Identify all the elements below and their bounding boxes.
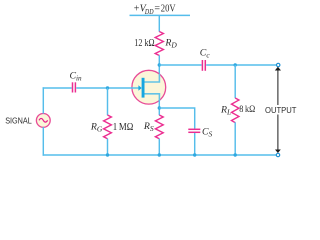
node RG bottom bbox=[106, 153, 109, 156]
node RL bottom bbox=[234, 153, 237, 156]
wire transistor source down bbox=[158, 100, 160, 115]
svg-text:=: = bbox=[154, 4, 160, 15]
resistor RS bbox=[155, 115, 163, 139]
node gate bbox=[106, 86, 109, 89]
svg-text:1 MΩ: 1 MΩ bbox=[113, 122, 134, 133]
signal source bbox=[36, 114, 50, 128]
node drain bbox=[158, 63, 161, 66]
wire node to RL bbox=[234, 65, 236, 98]
svg-text:20V: 20V bbox=[161, 4, 176, 15]
svg-text:12 kΩ: 12 kΩ bbox=[134, 38, 154, 49]
wire RL to bottom rail bbox=[234, 122, 236, 155]
node CS bottom bbox=[193, 153, 196, 156]
wire gate node down to RG bbox=[107, 88, 109, 115]
svg-text:8 kΩ: 8 kΩ bbox=[239, 104, 255, 115]
output terminal ring bottom bbox=[276, 153, 279, 156]
svg-text:SIGNAL: SIGNAL bbox=[5, 117, 32, 126]
wire RG to bottom rail bbox=[107, 139, 109, 155]
wire signal source down to rail bbox=[42, 127, 44, 156]
capacitor Cin bbox=[72, 82, 74, 92]
svg-text:OUTPUT: OUTPUT bbox=[265, 106, 297, 115]
node RS bottom bbox=[158, 153, 161, 156]
node source bbox=[158, 106, 161, 109]
resistor RL 8k bbox=[232, 98, 239, 123]
wire gate line to Cin bbox=[43, 87, 72, 89]
resistor RD 12k bbox=[155, 32, 163, 56]
wire supply rail to RD bbox=[158, 15, 160, 31]
supply rail +VDD bbox=[130, 14, 191, 16]
resistor RG 1M bbox=[104, 115, 112, 139]
output terminal ring top bbox=[277, 63, 280, 66]
wire signal source up to gate line bbox=[42, 87, 44, 113]
bottom rail bbox=[43, 154, 277, 156]
capacitor CC bbox=[201, 60, 203, 71]
output arrow bbox=[275, 67, 281, 153]
wire CC to output terminal bbox=[206, 64, 276, 66]
wire drain node to CC bbox=[159, 64, 201, 66]
wire CS to bottom rail bbox=[194, 133, 196, 155]
svg-text:DD: DD bbox=[144, 7, 154, 16]
wire source node to CS branch bbox=[159, 108, 194, 129]
wire RS to bottom rail bbox=[158, 139, 160, 155]
node RL top bbox=[234, 63, 237, 66]
transistor Q1 JFET bbox=[132, 70, 166, 104]
label OUTPUT bbox=[264, 105, 299, 115]
wire Cin to gate bbox=[76, 87, 132, 89]
wire RD to drain node bbox=[158, 55, 160, 73]
capacitor CS bbox=[188, 128, 200, 130]
label +VDD = 20V bbox=[134, 4, 177, 16]
